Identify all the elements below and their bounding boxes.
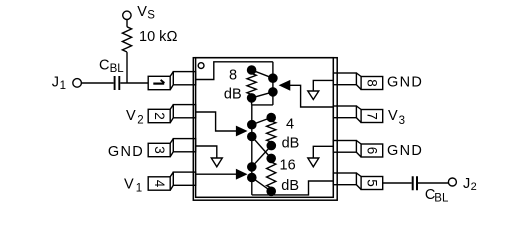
svg-text:1: 1: [136, 183, 142, 195]
pin 3: [148, 139, 195, 157]
svg-text:GND: GND: [387, 74, 423, 90]
svg-text:3: 3: [399, 115, 405, 127]
label J1: [52, 74, 66, 92]
svg-text:6: 6: [364, 147, 379, 155]
wire pin 8 to ground: [313, 80, 333, 91]
ground symbol pin 8: [308, 91, 319, 100]
wire CBL to J2: [418, 182, 448, 184]
pin 7: [333, 106, 382, 123]
connector J1: [73, 79, 82, 88]
svg-text:V: V: [124, 177, 134, 193]
wire stub 16dB bottom to bottom wire: [270, 191, 272, 195]
arrow wiper V1: [237, 170, 246, 179]
svg-text:10 kΩ: 10 kΩ: [139, 29, 178, 45]
diagonal switch contact 8dB top: [252, 70, 273, 78]
pin-1 indicator circle: [198, 63, 204, 69]
arrow wiper V3: [280, 81, 289, 90]
label 8 dB: [224, 68, 242, 103]
label CBL output: [425, 187, 449, 205]
svg-text:V: V: [137, 4, 147, 20]
connector J2: [448, 178, 456, 186]
wire stub 8dB bottom to rail: [251, 98, 253, 105]
IC body outer rectangle: [193, 58, 337, 201]
svg-text:V: V: [126, 108, 136, 124]
svg-text:7: 7: [364, 112, 379, 120]
svg-text:3: 3: [152, 146, 167, 154]
wire pin 5 to CBL output: [383, 182, 412, 184]
node dot 4dB bottom: [267, 142, 275, 150]
resistor R1 10 kOhm: [122, 27, 131, 52]
pin 5: [333, 173, 382, 190]
wire ladder bottom to pin 5: [252, 181, 333, 195]
capacitor CBL input: [115, 76, 120, 90]
svg-text:2: 2: [137, 114, 143, 126]
pin 6: [333, 141, 382, 158]
arrow wiper V2: [237, 127, 246, 136]
resistor 4 dB: [267, 121, 276, 142]
pin 2: [148, 105, 195, 123]
ground symbol pin 6: [308, 158, 319, 167]
node dot 8dB top: [248, 66, 256, 74]
svg-text:J: J: [52, 74, 59, 90]
diagonal switch contact 4dB top: [252, 118, 271, 125]
svg-text:dB: dB: [282, 135, 300, 151]
wire pin 7 V3 to wiper: [289, 85, 333, 107]
svg-text:4: 4: [286, 116, 294, 132]
label 16 dB: [280, 157, 300, 194]
svg-text:C: C: [99, 57, 109, 73]
node dot rail3 lower: [248, 173, 256, 181]
label 10 kOhm: [139, 29, 178, 45]
svg-text:dB: dB: [281, 178, 299, 194]
node dot rail2 lower: [248, 132, 256, 140]
resistor 16 dB: [267, 162, 276, 188]
node dot 8dB bottom: [248, 94, 256, 102]
wire pin 2 V2 to wiper: [196, 112, 238, 131]
pin 1: [148, 72, 195, 90]
svg-text:GND: GND: [108, 144, 144, 160]
node dot rail2 upper: [248, 121, 256, 129]
svg-text:J: J: [463, 176, 470, 192]
node dot 16dB bottom: [267, 187, 275, 195]
svg-text:2: 2: [471, 181, 477, 193]
node dot rail3 upper: [248, 163, 256, 171]
label VS: [137, 4, 155, 21]
diagonal switch contact 8dB bottom: [252, 92, 273, 98]
svg-text:16: 16: [280, 157, 296, 173]
wire crossover to left rail: [252, 104, 273, 106]
terminal VS: [123, 11, 131, 19]
wire left rail sections 2-3: [251, 105, 253, 195]
label 4 dB: [282, 116, 300, 151]
wire VS to resistor: [126, 19, 128, 26]
svg-text:4: 4: [152, 180, 167, 188]
svg-text:8: 8: [364, 79, 379, 87]
node dot rail1 lower: [269, 88, 277, 96]
svg-text:dB: dB: [224, 86, 242, 102]
wire pin 6 to ground: [313, 146, 333, 158]
wire pin 3 to ground: [196, 146, 217, 158]
label V1: [124, 177, 142, 195]
diagonal switch contact 4dB lower: [252, 137, 271, 159]
resistor 8 dB: [247, 74, 256, 95]
svg-text:BL: BL: [110, 63, 125, 75]
node dot 4dB top: [267, 113, 275, 121]
label J2: [463, 176, 477, 193]
pin 4: [148, 172, 195, 190]
label GND pin 3: [108, 144, 144, 160]
wire pin 1 to ladder top: [196, 62, 273, 80]
wire pin 4 V1 to wiper: [196, 173, 238, 175]
label V2: [126, 108, 144, 126]
label GND pin 6: [387, 143, 423, 159]
label CBL input: [99, 57, 124, 75]
label V3: [388, 108, 405, 127]
svg-text:S: S: [147, 9, 155, 21]
label GND pin 8: [387, 74, 423, 90]
diagonal switch contact 16dB bottom: [252, 178, 271, 192]
svg-text:GND: GND: [387, 143, 423, 159]
svg-text:V: V: [388, 108, 398, 124]
node dot rail1 upper: [269, 74, 277, 82]
ground symbol pin 3: [211, 158, 222, 167]
wire resistor to input node: [126, 52, 128, 83]
svg-text:2: 2: [152, 112, 167, 120]
capacitor CBL output: [413, 176, 417, 190]
svg-text:8: 8: [229, 68, 237, 84]
diagonal switch contact 16dB upper: [252, 146, 271, 167]
pin 8: [333, 73, 382, 90]
node dot 16dB top: [267, 154, 275, 162]
svg-text:BL: BL: [434, 192, 449, 204]
svg-text:1: 1: [60, 80, 66, 92]
wire J1 to CBL: [82, 82, 114, 84]
wire ladder rail section 1: [272, 62, 274, 105]
svg-text:5: 5: [364, 179, 379, 187]
wire CBL to pin 1: [120, 82, 148, 84]
IC body inner rectangle: [196, 58, 334, 198]
